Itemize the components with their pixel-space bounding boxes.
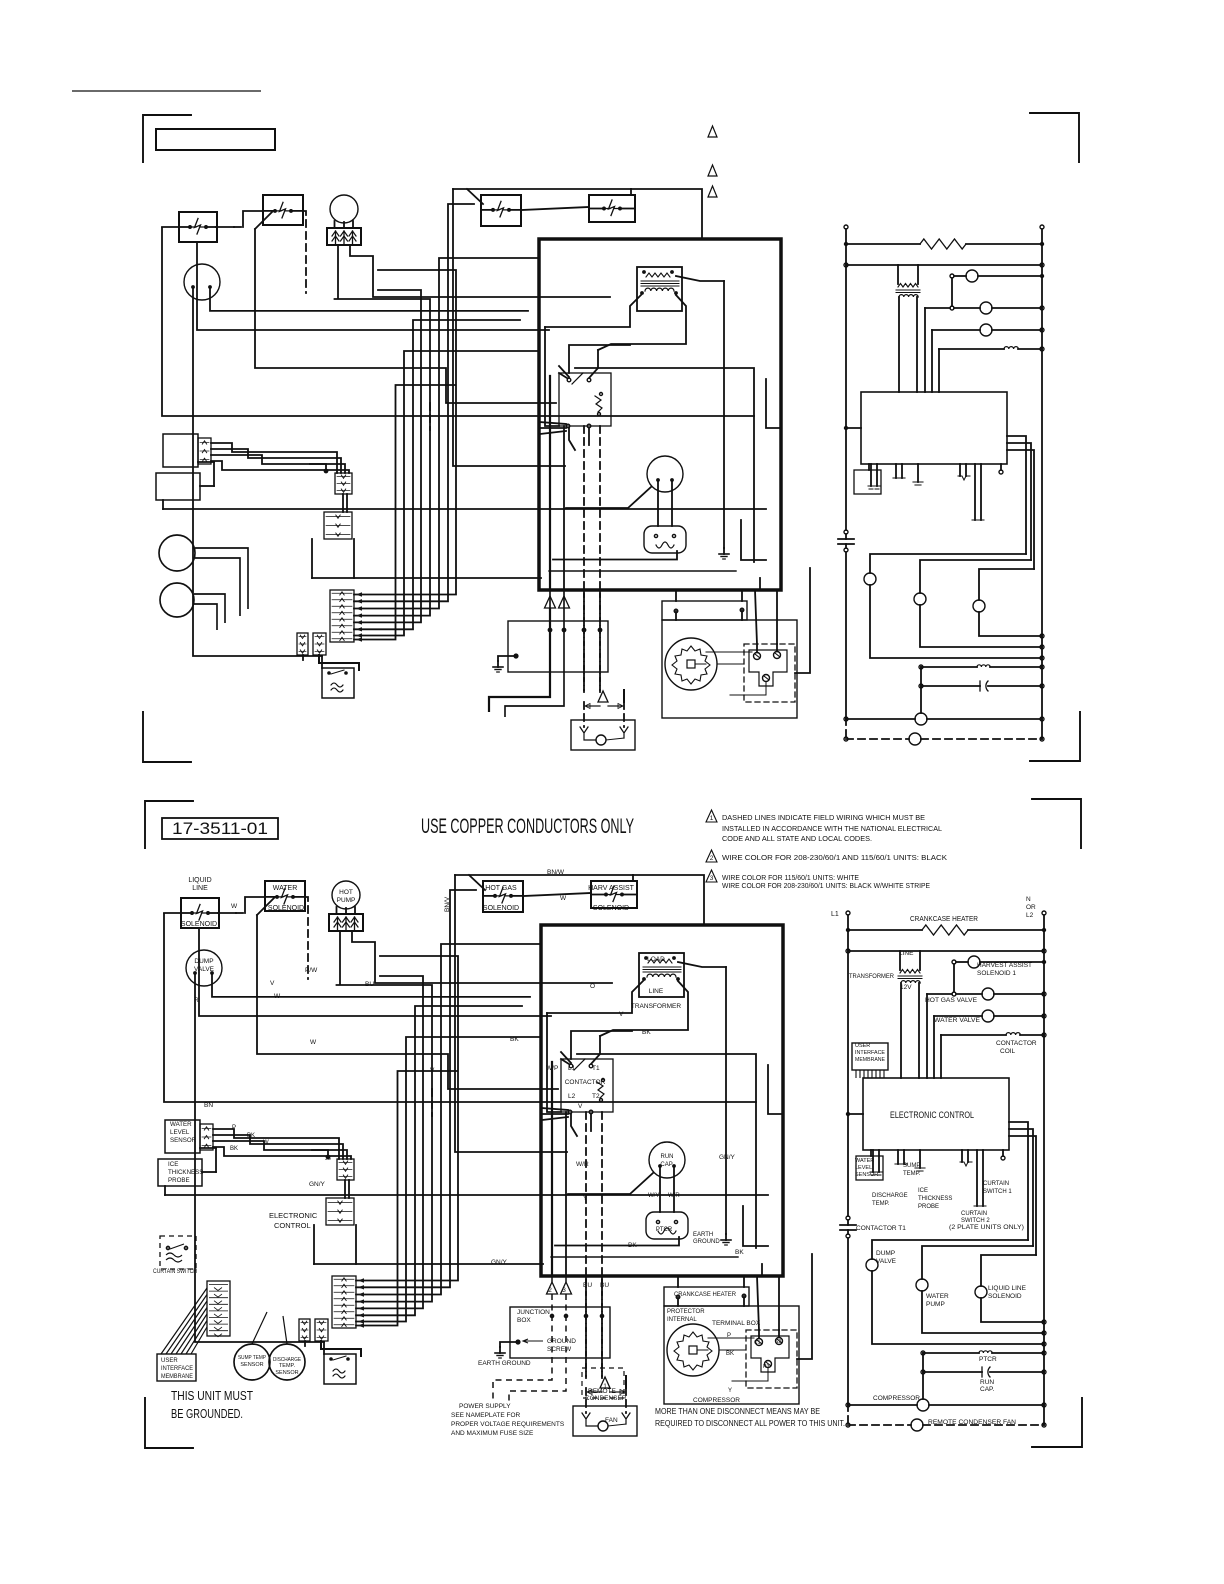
svg-text:L2: L2 (568, 1093, 576, 1100)
svg-text:V: V (270, 980, 275, 987)
svg-text:W: W (231, 903, 238, 910)
svg-text:WATER VALVE: WATER VALVE (934, 1017, 981, 1024)
svg-text:CONTROL: CONTROL (274, 1221, 311, 1230)
svg-text:12V: 12V (900, 984, 912, 991)
svg-text:BN/W: BN/W (547, 869, 565, 876)
svg-text:LEVEL: LEVEL (170, 1129, 190, 1136)
svg-text:HOT GAS: HOT GAS (485, 885, 517, 892)
svg-text:W/Y: W/Y (648, 1193, 659, 1199)
svg-text:BK: BK (510, 1036, 519, 1043)
svg-text:SCREW: SCREW (547, 1346, 572, 1353)
svg-text:RUN: RUN (980, 1379, 994, 1386)
svg-text:2: 2 (548, 1287, 552, 1294)
svg-text:POWER SUPPLY: POWER SUPPLY (459, 1403, 511, 1410)
svg-text:N: N (1026, 896, 1031, 903)
svg-text:USER: USER (855, 1043, 870, 1049)
svg-text:WATER: WATER (926, 1293, 949, 1300)
svg-text:ELECTRONIC CONTROL: ELECTRONIC CONTROL (890, 1110, 974, 1121)
svg-text:LIQUID: LIQUID (188, 877, 211, 884)
svg-text:PUMP: PUMP (926, 1301, 945, 1308)
svg-text:TEMP.: TEMP. (903, 1171, 921, 1177)
svg-text:LIQUID LINE: LIQUID LINE (988, 1285, 1027, 1292)
svg-text:BK: BK (628, 1242, 637, 1249)
svg-text:ELECTRONIC: ELECTRONIC (269, 1211, 318, 1220)
svg-text:USER: USER (161, 1358, 178, 1364)
svg-text:GN/Y: GN/Y (309, 1181, 326, 1188)
svg-text:C1: C1 (754, 1340, 761, 1346)
svg-text:WIRE COLOR FOR 208-230/60/1 AN: WIRE COLOR FOR 208-230/60/1 AND 115/60/1… (722, 853, 947, 862)
svg-text:HOT: HOT (339, 889, 353, 896)
svg-text:CODE AND ALL STATE AND LOCAL C: CODE AND ALL STATE AND LOCAL CODES. (722, 834, 872, 843)
svg-text:3: 3 (710, 875, 714, 882)
svg-text:BK: BK (230, 1146, 238, 1152)
svg-text:PROTECTOR: PROTECTOR (667, 1309, 705, 1315)
svg-text:BK: BK (726, 1351, 734, 1357)
svg-text:PTCR: PTCR (656, 1227, 673, 1233)
svg-text:JUNCTION: JUNCTION (517, 1309, 550, 1316)
svg-text:ICE: ICE (918, 1188, 928, 1194)
svg-text:CURTAIN SWITCH: CURTAIN SWITCH (153, 1269, 197, 1275)
svg-text:CURTAIN: CURTAIN (961, 1211, 987, 1217)
svg-text:SEE NAMEPLATE FOR: SEE NAMEPLATE FOR (451, 1412, 521, 1419)
svg-text:SWITCH 1: SWITCH 1 (983, 1189, 1012, 1195)
svg-text:LINE: LINE (899, 950, 914, 957)
svg-text:GN/Y: GN/Y (491, 1259, 508, 1266)
svg-text:ICE: ICE (168, 1161, 178, 1168)
svg-text:WATER: WATER (170, 1121, 192, 1128)
svg-text:P: P (727, 1333, 731, 1339)
svg-text:W: W (310, 1039, 317, 1046)
svg-text:SUMP TEMP: SUMP TEMP (238, 1355, 266, 1361)
svg-text:AND MAXIMUM FUSE SIZE: AND MAXIMUM FUSE SIZE (451, 1430, 534, 1437)
svg-text:J6: J6 (325, 1156, 331, 1162)
svg-text:SENSOR: SENSOR (275, 1370, 298, 1376)
svg-text:3: 3 (562, 1287, 566, 1294)
svg-text:V: V (578, 1103, 583, 1110)
svg-text:GROUND: GROUND (547, 1338, 576, 1345)
svg-text:REQUIRED TO DISCONNECT ALL POW: REQUIRED TO DISCONNECT ALL POWER TO THIS… (655, 1419, 845, 1428)
svg-text:SOLENOID: SOLENOID (593, 905, 629, 912)
svg-text:CONTACTOR: CONTACTOR (996, 1040, 1037, 1047)
svg-text:BU: BU (583, 1282, 592, 1289)
svg-text:17-3511-01: 17-3511-01 (172, 819, 268, 838)
svg-text:MEMBRANE: MEMBRANE (855, 1057, 885, 1063)
svg-text:DASHED LINES INDICATE FIELD WI: DASHED LINES INDICATE FIELD WIRING WHICH… (722, 813, 925, 822)
svg-text:DUMP: DUMP (194, 958, 213, 965)
svg-text:T2: T2 (592, 1093, 600, 1100)
svg-text:THICKNESS: THICKNESS (918, 1196, 952, 1202)
svg-text:BN/V: BN/V (444, 896, 451, 912)
svg-text:BOX: BOX (517, 1317, 531, 1324)
svg-text:OR: OR (1026, 904, 1036, 911)
svg-text:BK: BK (735, 1249, 744, 1256)
svg-text:GROUND: GROUND (693, 1239, 720, 1245)
svg-text:CONTACTOR T1: CONTACTOR T1 (856, 1225, 906, 1232)
svg-text:BU: BU (365, 981, 374, 988)
svg-text:BE GROUNDED.: BE GROUNDED. (171, 1407, 243, 1421)
svg-text:LOAD: LOAD (647, 956, 665, 963)
svg-text:Y: Y (583, 1195, 588, 1202)
svg-text:RUN: RUN (661, 1154, 674, 1160)
svg-text:HARV ASSIST: HARV ASSIST (588, 885, 635, 892)
svg-text:HOT GAS VALVE: HOT GAS VALVE (925, 997, 978, 1004)
svg-text:SENSOR: SENSOR (855, 1172, 878, 1178)
svg-text:HARVEST ASSIST: HARVEST ASSIST (977, 962, 1032, 969)
svg-text:COMPRESSOR: COMPRESSOR (693, 1397, 740, 1404)
svg-text:W: W (263, 1140, 269, 1146)
svg-text:CURTAIN: CURTAIN (983, 1181, 1009, 1187)
svg-text:(2 PLATE UNITS ONLY): (2 PLATE UNITS ONLY) (949, 1225, 1024, 1231)
svg-text:SOLENOID: SOLENOID (181, 921, 217, 928)
svg-text:SOLENOID: SOLENOID (268, 905, 304, 912)
svg-text:BU: BU (600, 1282, 609, 1289)
svg-text:W: W (274, 993, 281, 1000)
svg-text:CONDENSER: CONDENSER (585, 1395, 627, 1402)
svg-text:TRANSFORMER: TRANSFORMER (631, 1003, 682, 1010)
svg-text:TERMINAL BOX: TERMINAL BOX (712, 1320, 761, 1327)
svg-text:L2: L2 (1026, 912, 1034, 919)
svg-text:PROBE: PROBE (168, 1177, 190, 1184)
svg-text:O: O (590, 983, 595, 990)
svg-text:1: 1 (710, 815, 714, 822)
svg-text:Y: Y (728, 1388, 732, 1394)
svg-text:1: 1 (603, 1383, 607, 1390)
svg-text:L1: L1 (568, 1065, 576, 1072)
svg-text:R3: R3 (763, 1364, 770, 1370)
svg-text:SOLENOID 1: SOLENOID 1 (977, 970, 1016, 977)
svg-text:FAN: FAN (605, 1417, 618, 1424)
svg-text:SWITCH 2: SWITCH 2 (961, 1218, 990, 1224)
svg-text:V: V (430, 1067, 435, 1074)
svg-text:SENSOR: SENSOR (170, 1137, 197, 1144)
svg-text:VALVE: VALVE (876, 1258, 897, 1265)
svg-text:COIL: COIL (1000, 1048, 1016, 1055)
svg-text:COMPRESSOR: COMPRESSOR (873, 1395, 920, 1402)
svg-text:THIS UNIT MUST: THIS UNIT MUST (171, 1389, 253, 1403)
svg-text:EARTH: EARTH (693, 1232, 713, 1238)
svg-text:WATER: WATER (855, 1158, 874, 1164)
svg-text:DISCHARGE: DISCHARGE (872, 1193, 908, 1199)
svg-text:MORE THAN ONE DISCONNECT MEANS: MORE THAN ONE DISCONNECT MEANS MAY BE (655, 1407, 820, 1416)
svg-text:BK: BK (247, 1133, 255, 1139)
svg-text:LINE: LINE (649, 988, 664, 995)
svg-text:TEMP.: TEMP. (279, 1363, 296, 1369)
svg-text:EARTH GROUND: EARTH GROUND (478, 1360, 531, 1367)
svg-text:V: V (619, 1011, 624, 1018)
svg-text:W/R: W/R (576, 1161, 589, 1168)
svg-text:WATER: WATER (273, 885, 298, 892)
svg-text:W/R: W/R (668, 1193, 680, 1199)
svg-text:W/P: W/P (546, 1065, 558, 1072)
svg-text:CAP.: CAP. (660, 1162, 674, 1168)
svg-text:BN: BN (204, 1102, 213, 1109)
svg-text:INTERFACE: INTERFACE (855, 1050, 885, 1056)
svg-text:CRANKCASE HEATER: CRANKCASE HEATER (674, 1291, 736, 1298)
svg-text:SENSOR: SENSOR (240, 1362, 263, 1368)
svg-text:MEMBRANE: MEMBRANE (161, 1374, 193, 1380)
svg-text:VALVE: VALVE (194, 966, 215, 973)
svg-text:PUMP: PUMP (337, 897, 356, 904)
svg-text:P/W: P/W (305, 967, 318, 974)
svg-text:CONTACTOR: CONTACTOR (565, 1079, 606, 1086)
svg-text:REMOTE CONDENSER FAN: REMOTE CONDENSER FAN (928, 1419, 1016, 1426)
svg-text:USE COPPER CONDUCTORS ONLY: USE COPPER CONDUCTORS ONLY (421, 815, 634, 838)
svg-text:L1: L1 (831, 911, 839, 918)
svg-text:T1: T1 (592, 1065, 600, 1072)
svg-text:R: R (194, 997, 199, 1004)
svg-text:BK: BK (642, 1029, 651, 1036)
svg-text:SOLENOID: SOLENOID (988, 1293, 1022, 1300)
svg-text:INTERFACE: INTERFACE (161, 1366, 193, 1372)
svg-text:INTERNAL: INTERNAL (667, 1317, 697, 1323)
svg-text:CAP.: CAP. (980, 1386, 995, 1393)
svg-text:PROBE: PROBE (918, 1204, 939, 1210)
svg-text:LEVEL: LEVEL (855, 1165, 872, 1171)
svg-text:LINE: LINE (192, 885, 208, 892)
svg-text:SOLENOID: SOLENOID (483, 905, 519, 912)
svg-text:THICKNESS: THICKNESS (168, 1169, 203, 1176)
svg-text:SUMP: SUMP (903, 1163, 920, 1169)
svg-text:PROPER VOLTAGE REQUIREMENTS: PROPER VOLTAGE REQUIREMENTS (451, 1421, 565, 1428)
svg-text:PTCR: PTCR (979, 1356, 997, 1363)
svg-text:GN/Y: GN/Y (719, 1154, 736, 1161)
svg-text:W: W (560, 895, 567, 902)
svg-text:TRANSFORMER: TRANSFORMER (849, 973, 894, 980)
svg-text:TEMP.: TEMP. (872, 1201, 890, 1207)
svg-text:CRANKCASE HEATER: CRANKCASE HEATER (910, 916, 978, 923)
svg-text:WIRE COLOR FOR 208-230/60/1 UN: WIRE COLOR FOR 208-230/60/1 UNITS: BLACK… (722, 881, 930, 890)
svg-text:2: 2 (710, 855, 714, 862)
svg-text:DUMP: DUMP (876, 1250, 895, 1257)
svg-text:INSTALLED IN ACCORDANCE WITH T: INSTALLED IN ACCORDANCE WITH THE NATIONA… (722, 824, 942, 833)
svg-text:P: P (232, 1125, 236, 1131)
svg-text:S2: S2 (775, 1339, 781, 1345)
